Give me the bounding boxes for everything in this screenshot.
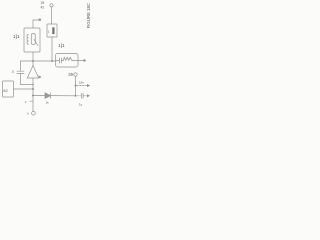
svg-text:82: 82 [3, 88, 8, 93]
svg-text:39: 39 [68, 72, 73, 77]
svg-text:1]1: 1]1 [13, 34, 20, 40]
svg-text:42: 42 [41, 5, 45, 9]
svg-text:1]1: 1]1 [58, 43, 65, 49]
svg-text:1k: 1k [46, 101, 50, 105]
svg-text:b: b [39, 75, 41, 79]
svg-text:FIGURE 18C: FIGURE 18C [86, 3, 91, 28]
svg-text:1(: 1( [12, 70, 15, 74]
svg-text:1y: 1y [79, 103, 83, 107]
svg-text:18x: 18x [79, 81, 84, 85]
